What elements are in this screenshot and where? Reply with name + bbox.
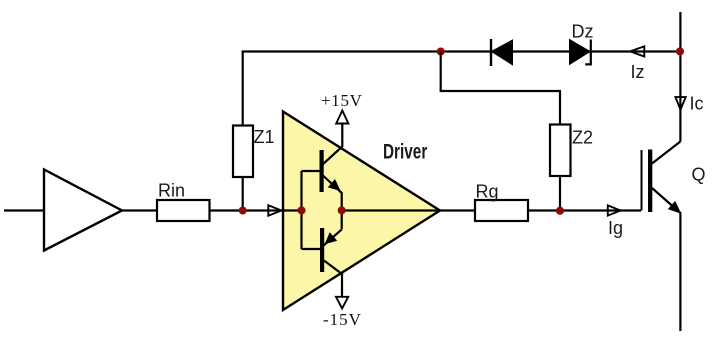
wire: buffer output to Rin bbox=[122, 209, 157, 211]
wire: Rin to driver input (through node A) bbox=[210, 209, 284, 211]
svg-text:Rg: Rg bbox=[476, 182, 499, 202]
wire: Z2 down to gate node bbox=[559, 176, 561, 211]
svg-text:-15V: -15V bbox=[323, 310, 362, 329]
node: driver output emitter node bbox=[338, 206, 346, 214]
buffer amplifier (input buffer) bbox=[44, 170, 122, 251]
wire: emitter lead down bbox=[679, 214, 681, 332]
op-amp driver (yellow triangle) bbox=[283, 112, 440, 311]
svg-text:Driver: Driver bbox=[383, 139, 427, 163]
wire: collector lead up bbox=[679, 12, 681, 142]
svg-text:Ic: Ic bbox=[690, 94, 704, 114]
wire: base link upper bbox=[302, 170, 321, 172]
wire: input line bbox=[4, 209, 44, 211]
svg-text:Z2: Z2 bbox=[572, 128, 593, 148]
transistor Q (IGBT) bbox=[642, 142, 706, 214]
wire: Rg to IGBT gate bbox=[528, 209, 641, 211]
resistor Rg bbox=[475, 182, 528, 222]
wire: driver input inside triangle bbox=[283, 209, 302, 211]
node A (Rin / Z1 / driver input junction) bbox=[239, 206, 247, 214]
svg-text:Iz: Iz bbox=[631, 62, 645, 82]
zener diode Dz bbox=[570, 22, 594, 65]
resistor Z1 bbox=[233, 126, 275, 178]
power -15V supply bbox=[323, 273, 362, 330]
arrow + label Iz (current into zener) bbox=[630, 46, 645, 82]
wire: branch from top rail down to Z2 bbox=[441, 52, 560, 125]
node: gate node (Rg / Z2 junction) bbox=[556, 207, 564, 215]
resistor Rin bbox=[157, 181, 210, 222]
svg-text:Ig: Ig bbox=[608, 218, 623, 238]
svg-text:Dz: Dz bbox=[572, 22, 594, 42]
arrow + label Ic (collector current) bbox=[675, 94, 703, 114]
svg-text:Rin: Rin bbox=[158, 181, 185, 201]
wire: base link lower bbox=[302, 248, 321, 250]
wire: driver output to Rg bbox=[342, 209, 475, 211]
node: collector / clamp junction bbox=[676, 47, 684, 55]
wire: node A to Z1 bbox=[242, 177, 244, 211]
transistor Q2 (PNP lower of push-pull) bbox=[320, 211, 342, 275]
wire: base bus vertical bbox=[300, 171, 302, 249]
svg-text:Q: Q bbox=[692, 165, 706, 185]
arrow: driver input bbox=[268, 205, 281, 215]
power +15V supply bbox=[321, 91, 363, 147]
node: driver input base node bbox=[297, 206, 305, 214]
svg-text:Z1: Z1 bbox=[254, 127, 275, 147]
transistor Q1 (NPN upper of push-pull) bbox=[320, 147, 343, 211]
resistor Z2 bbox=[550, 125, 593, 177]
node: top rail junction to Z2 branch bbox=[437, 47, 445, 55]
wire: top rail bbox=[242, 50, 680, 52]
arrow + label Ig (gate current) bbox=[608, 205, 623, 238]
diode D1 (left, pointing left) bbox=[491, 39, 513, 66]
svg-text:+15V: +15V bbox=[321, 91, 363, 110]
wire: Z1 up to top rail bbox=[242, 52, 244, 126]
